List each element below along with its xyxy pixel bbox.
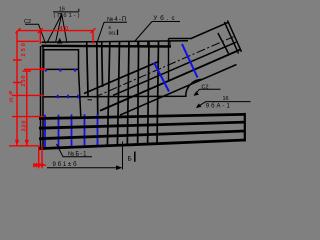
svg-text:320: 320 (22, 121, 28, 132)
svg-text:№4-П: №4-П (107, 16, 126, 23)
svg-text:25: 25 (9, 97, 14, 102)
svg-text:40: 40 (8, 90, 13, 95)
svg-text:Б: Б (128, 156, 132, 163)
svg-text:250: 250 (21, 76, 27, 87)
svg-text:C2: C2 (24, 19, 31, 25)
svg-text:16: 16 (223, 96, 229, 102)
svg-text:250: 250 (21, 43, 27, 57)
svg-text:№Б-1: №Б-1 (68, 150, 87, 157)
svg-text:9б1: 9б1 (109, 31, 117, 36)
svg-text:16: 16 (59, 7, 65, 13)
svg-text:C2: C2 (202, 85, 209, 91)
